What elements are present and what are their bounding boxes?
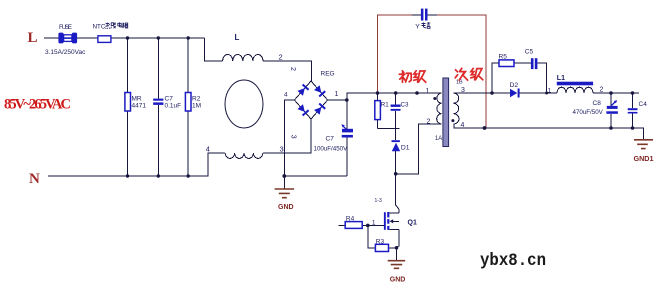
svg-text:C4: C4 bbox=[639, 101, 648, 108]
ground GND (primary, earth) bbox=[275, 176, 295, 211]
svg-text:1M: 1M bbox=[192, 103, 201, 110]
label MR 4471 bbox=[132, 96, 147, 110]
svg-text:GND1: GND1 bbox=[634, 154, 654, 163]
svg-text:2: 2 bbox=[279, 53, 283, 62]
svg-text:R3: R3 bbox=[376, 239, 385, 246]
capacitor Y-cap bbox=[421, 9, 428, 21]
label bridge pin 1 bbox=[335, 91, 339, 98]
label pin 3 of choke bbox=[280, 145, 284, 154]
label R5 bbox=[499, 54, 508, 61]
ground GND1 (secondary, earth) bbox=[633, 128, 654, 163]
svg-text:C3: C3 bbox=[401, 102, 409, 109]
label transformer pin 4 bbox=[461, 122, 465, 129]
diode D2 bbox=[510, 89, 520, 98]
wire: X-cap branch vertical bbox=[157, 38, 159, 176]
label bridge pin 3 (rotated) bbox=[290, 135, 297, 139]
fuse FUSE 3.15A/250Vac bbox=[58, 33, 77, 44]
wire: choke pin3 to bridge bottom bbox=[263, 119, 311, 153]
label REG bbox=[321, 71, 335, 78]
svg-text:100uF/450V: 100uF/450V bbox=[314, 146, 349, 153]
wire: secondary bottom rail bbox=[454, 124, 633, 128]
svg-text:1: 1 bbox=[372, 220, 376, 227]
svg-text:R2: R2 bbox=[192, 96, 201, 103]
label transformer pin 1 bbox=[426, 88, 430, 95]
svg-text:1: 1 bbox=[426, 88, 430, 95]
diode bridge bottom-right bbox=[314, 103, 326, 115]
bridge rectifier REG diamond outline bbox=[294, 81, 327, 119]
label C5 bbox=[525, 49, 534, 56]
svg-text:85V~265VAC: 85V~265VAC bbox=[4, 97, 71, 113]
svg-text:R5: R5 bbox=[499, 54, 508, 61]
wire: D2 cathode to L1 bbox=[520, 92, 557, 94]
svg-text:4471: 4471 bbox=[132, 103, 147, 110]
wire: drain node to transformer pin 2 bbox=[396, 124, 442, 174]
label winding 1A bbox=[435, 136, 442, 142]
inductor L1 core bar bbox=[557, 82, 593, 86]
label L1 pin 2 bbox=[600, 87, 604, 94]
inductor L common-mode choke upper winding bbox=[223, 54, 263, 61]
svg-text:REG: REG bbox=[321, 71, 335, 78]
label D1 bbox=[401, 145, 410, 152]
inductor L common-mode choke lower winding bbox=[225, 153, 263, 158]
svg-text:R1: R1 bbox=[381, 102, 389, 109]
svg-text:4: 4 bbox=[206, 145, 210, 154]
resistor R2 1M bbox=[185, 93, 191, 112]
label gate node 1 bbox=[372, 220, 376, 227]
label transformer pin 3 bbox=[461, 87, 465, 94]
label L (choke) bbox=[235, 33, 240, 42]
wire: secondary pin3 to D2 bbox=[454, 92, 510, 94]
capacitor C5 bbox=[531, 58, 537, 69]
transformer secondary winding bbox=[453, 93, 459, 124]
svg-text:2: 2 bbox=[427, 119, 431, 126]
label winding 1B bbox=[456, 80, 463, 86]
MOSFET Q1 bbox=[384, 205, 399, 260]
label N line (red) bbox=[29, 171, 40, 187]
label R3 bbox=[376, 239, 385, 246]
label secondary (Chinese, red) bbox=[455, 68, 483, 80]
svg-text:470uF/50V: 470uF/50V bbox=[573, 109, 604, 116]
svg-text:ybx8.cn: ybx8.cn bbox=[480, 251, 546, 271]
label bridge pin 2 (rotated) bbox=[289, 67, 296, 71]
wire: output rail after L1 bbox=[593, 92, 639, 94]
label C4 bbox=[639, 101, 648, 108]
label L line (red) bbox=[28, 30, 38, 46]
wire: snubber loop R5 C5 bbox=[492, 63, 547, 93]
wire: bridge minus to primary ground bbox=[284, 100, 294, 176]
svg-text:R4: R4 bbox=[346, 216, 355, 223]
watermark ybx8.cn bbox=[480, 251, 546, 271]
svg-text:0.1uF: 0.1uF bbox=[165, 103, 182, 110]
label net mark near Q1 bbox=[375, 198, 382, 204]
wire: Y-cap stubs bbox=[412, 14, 437, 16]
wire: primary ground rail bbox=[284, 175, 347, 177]
wire: drop to choke upper winding bbox=[205, 38, 223, 61]
label pin 2 of choke bbox=[279, 53, 283, 62]
svg-text:D2: D2 bbox=[510, 82, 519, 89]
resistor R3 bbox=[368, 225, 397, 251]
svg-text:GND: GND bbox=[390, 276, 406, 283]
svg-text:C7: C7 bbox=[165, 96, 174, 103]
svg-text:1: 1 bbox=[335, 91, 339, 98]
ground GND (source, earth) bbox=[388, 248, 406, 283]
label FUSE bbox=[59, 24, 72, 31]
svg-text:4: 4 bbox=[284, 92, 288, 99]
label bridge pin 4 bbox=[284, 92, 288, 99]
label primary (Chinese, red) bbox=[399, 71, 426, 82]
label Y-cap (Chinese) bbox=[415, 22, 430, 30]
svg-text:1-3: 1-3 bbox=[375, 198, 382, 204]
label R2 1M bbox=[192, 96, 201, 110]
resistor R4 bbox=[339, 222, 385, 229]
transformer primary winding bbox=[437, 93, 442, 124]
svg-text:FUSE: FUSE bbox=[59, 24, 72, 31]
wire: L line input rail bbox=[44, 37, 205, 39]
diode D1 (clamp) bbox=[392, 128, 401, 174]
transformer polarity dot secondary bbox=[451, 119, 454, 122]
wire: N line input rail bbox=[48, 153, 225, 176]
label D2 bbox=[510, 82, 519, 89]
svg-text:C7: C7 bbox=[326, 136, 335, 143]
resistor NTC thermistor bbox=[98, 36, 111, 43]
svg-text:NTC: NTC bbox=[93, 23, 106, 30]
label pin 4 of choke bbox=[206, 145, 210, 154]
diode bridge top-left bbox=[297, 84, 309, 96]
svg-text:1A: 1A bbox=[435, 136, 442, 142]
label 3.15A/250Vac bbox=[45, 49, 86, 56]
choke core circle bbox=[225, 80, 263, 128]
svg-text:C5: C5 bbox=[525, 49, 534, 56]
wire: drain vertical to Q1 bbox=[395, 174, 397, 206]
capacitor C4 bbox=[628, 93, 638, 128]
transformer polarity dot primary bbox=[433, 97, 436, 100]
svg-text:3: 3 bbox=[290, 135, 297, 139]
svg-text:Y: Y bbox=[415, 23, 420, 30]
svg-text:D1: D1 bbox=[401, 145, 410, 152]
svg-text:N: N bbox=[29, 171, 40, 187]
inductor L1 winding bbox=[557, 87, 593, 93]
svg-text:MR: MR bbox=[132, 96, 142, 103]
svg-text:2: 2 bbox=[600, 87, 604, 94]
label NTC (Chinese: NTC thermistor) bbox=[93, 22, 129, 30]
label L1 pin 1 bbox=[548, 88, 552, 95]
wire: Y-cap loop (maroon) top right and right leg bbox=[437, 15, 486, 128]
svg-text:3: 3 bbox=[280, 145, 284, 154]
label C7 0.1uF bbox=[165, 96, 182, 110]
svg-text:C8: C8 bbox=[593, 100, 602, 107]
svg-text:GND: GND bbox=[278, 204, 294, 211]
wire: MOV branch vertical bbox=[127, 38, 129, 176]
svg-text:L: L bbox=[28, 30, 38, 46]
svg-text:L1: L1 bbox=[557, 75, 565, 82]
wire: clamp bottom join bbox=[378, 127, 400, 129]
label L1 bbox=[557, 75, 565, 82]
diode bridge top-right bbox=[314, 85, 326, 97]
svg-text:3.15A/250Vac: 3.15A/250Vac bbox=[45, 49, 86, 56]
varistor MOV 4471 bbox=[125, 93, 131, 112]
transformer T core bar bbox=[443, 78, 449, 147]
label C7 100uF/450V bbox=[314, 136, 349, 153]
label R1 bbox=[381, 102, 389, 109]
label transformer pin 2 bbox=[427, 119, 431, 126]
label Q1 bbox=[408, 220, 417, 227]
capacitor C7 0.1uF (X-cap) bbox=[153, 99, 163, 105]
wire: R2 branch vertical bbox=[187, 38, 189, 176]
label C3 bbox=[401, 102, 409, 109]
wire: choke pin2 to bridge top bbox=[263, 61, 311, 81]
svg-text:1: 1 bbox=[548, 88, 552, 95]
label C8 470uF/50V bbox=[573, 100, 604, 116]
svg-text:Q1: Q1 bbox=[408, 220, 417, 227]
svg-text:L: L bbox=[235, 33, 240, 42]
capacitor C8 470uF/50V output electrolytic bbox=[606, 93, 618, 128]
wire: bridge plus output to transformer pin 1 bbox=[328, 93, 442, 100]
svg-text:2: 2 bbox=[289, 67, 296, 71]
capacitor C3 (clamp) bbox=[391, 93, 401, 128]
diode bridge bottom-left bbox=[297, 104, 309, 116]
capacitor C7 100uF/450V bulk electrolytic bbox=[341, 100, 353, 176]
resistor R5 bbox=[499, 60, 514, 67]
resistor R1 (clamp) bbox=[375, 93, 381, 128]
label 85V~265VAC (red) bbox=[4, 97, 71, 113]
label R4 bbox=[346, 216, 355, 223]
wire: Y-cap loop (maroon) left leg and top bbox=[378, 15, 413, 93]
